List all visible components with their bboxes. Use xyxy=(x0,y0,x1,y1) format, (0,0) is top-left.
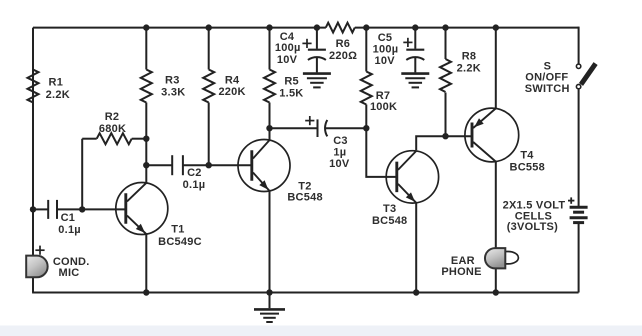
svg-text:R5: R5 xyxy=(284,75,299,87)
capacitor C1 xyxy=(47,200,49,219)
battery B1 2x1.5V xyxy=(570,206,588,209)
resistor R3 xyxy=(141,70,152,103)
svg-text:3.3K: 3.3K xyxy=(161,86,185,98)
svg-text:100µ: 100µ xyxy=(373,43,399,55)
svg-text:S: S xyxy=(544,60,552,72)
resistor R2 xyxy=(81,139,83,210)
svg-text:R2: R2 xyxy=(105,111,120,123)
node: C3 / R7 junction xyxy=(363,125,369,131)
wire: R4 branch xyxy=(208,28,210,70)
svg-text:0.1µ: 0.1µ xyxy=(58,224,81,236)
svg-text:1.5K: 1.5K xyxy=(279,87,303,99)
wire: T4 emitter to top rail xyxy=(495,28,497,110)
node: bottom rail junctions xyxy=(143,289,149,295)
wire: C2 to T2 base xyxy=(183,164,252,166)
transistor T4 xyxy=(465,108,519,162)
wire: right rail battery to bottom rail xyxy=(578,224,580,293)
transistor T2 xyxy=(238,140,290,192)
resistor R6 xyxy=(326,23,355,33)
resistor R4 xyxy=(203,70,214,103)
svg-text:1µ: 1µ xyxy=(333,146,346,158)
svg-text:2.2K: 2.2K xyxy=(46,89,70,101)
node: R2 to T1 collector junction xyxy=(143,136,149,142)
svg-text:680K: 680K xyxy=(99,123,126,135)
C3 polarity + xyxy=(305,120,314,122)
wire: bottom ground rail xyxy=(32,292,579,294)
svg-text:10V: 10V xyxy=(277,54,298,66)
wire: R7 branch xyxy=(365,28,367,72)
condenser microphone xyxy=(26,256,47,278)
wire: R7 node down and to T3 base xyxy=(366,128,397,177)
wire: R5 branch / T2 collector line xyxy=(269,28,271,70)
capacitor C3 xyxy=(317,119,319,137)
node: R5 / T2 collector / C3 junction xyxy=(266,125,272,131)
resistor R8 xyxy=(440,59,451,92)
svg-text:R3: R3 xyxy=(165,74,180,86)
svg-text:220K: 220K xyxy=(218,86,245,98)
svg-text:10V: 10V xyxy=(375,55,396,67)
wire: C3 to R7 node xyxy=(326,127,367,129)
svg-text:PHONE: PHONE xyxy=(441,266,481,278)
capacitor C4 xyxy=(316,28,318,49)
resistor R7 xyxy=(361,72,372,105)
svg-text:C3: C3 xyxy=(333,135,348,147)
svg-text:R8: R8 xyxy=(462,50,477,62)
svg-text:10V: 10V xyxy=(329,158,350,170)
capacitor C5 xyxy=(414,28,416,49)
svg-text:C5: C5 xyxy=(378,32,393,44)
svg-text:100µ: 100µ xyxy=(275,42,301,54)
wire: mic node to T1 base through C1 xyxy=(33,208,48,210)
svg-text:MIC: MIC xyxy=(59,267,80,279)
svg-text:2.2K: 2.2K xyxy=(457,62,481,74)
wire: T2 emitter to bottom rail xyxy=(269,191,271,292)
wire: T1 emitter to bottom rail xyxy=(145,234,147,292)
capacitor C2 xyxy=(171,155,173,175)
ground for C5 xyxy=(401,72,429,75)
svg-text:EAR: EAR xyxy=(451,255,475,267)
svg-text:0.1µ: 0.1µ xyxy=(183,179,206,191)
switch S contacts xyxy=(576,64,580,68)
svg-text:BC548: BC548 xyxy=(372,215,408,227)
svg-text:T3: T3 xyxy=(383,203,396,215)
node: C1 left on input rail xyxy=(30,206,36,212)
transistor T1 xyxy=(116,183,168,235)
svg-text:SWITCH: SWITCH xyxy=(525,83,570,95)
svg-text:R6: R6 xyxy=(336,38,351,50)
svg-text:ON/OFF: ON/OFF xyxy=(525,72,568,84)
svg-text:100K: 100K xyxy=(370,101,397,113)
wire: T3 collector to R8 node and T4 base xyxy=(416,136,472,150)
wire: left vertical rail xyxy=(32,28,34,293)
node: R4 to C2 junction xyxy=(206,162,212,168)
wire: T4 collector to earphone and bottom rail xyxy=(495,161,497,293)
mic polarity + xyxy=(35,249,44,251)
svg-text:C2: C2 xyxy=(187,167,202,179)
svg-text:T1: T1 xyxy=(171,224,184,236)
earphone body xyxy=(485,248,505,268)
svg-text:T4: T4 xyxy=(520,149,534,161)
svg-text:BC548: BC548 xyxy=(287,191,323,203)
wire: T2 collector node to C3 xyxy=(270,127,318,129)
resistor R1 xyxy=(28,70,39,103)
svg-text:C1: C1 xyxy=(61,212,76,224)
wire: T1 collector to C2 xyxy=(146,164,172,166)
svg-text:BC558: BC558 xyxy=(510,161,546,173)
C5 polarity + xyxy=(403,41,412,43)
svg-text:BC549C: BC549C xyxy=(158,236,202,248)
node: top rail junctions xyxy=(143,24,149,30)
node: R2 to T1 base junction xyxy=(79,206,85,212)
svg-text:R7: R7 xyxy=(376,90,391,102)
wire: top supply rail xyxy=(33,27,326,29)
wire: R8 branch xyxy=(445,28,447,59)
wire: right rail top segment to switch xyxy=(578,27,580,64)
battery polarity + xyxy=(568,200,574,202)
node: C2 tap on T1 collector xyxy=(143,162,149,168)
wire: right rail switch to battery xyxy=(578,89,580,206)
transistor T3 xyxy=(386,151,438,203)
earphone loop xyxy=(505,252,518,264)
svg-text:220Ω: 220Ω xyxy=(329,50,357,62)
wire: T3 emitter to bottom rail xyxy=(415,203,417,293)
node: R8 / T3 collector / T4 base junction xyxy=(442,133,448,139)
svg-text:(3VOLTS): (3VOLTS) xyxy=(507,221,558,233)
C4 polarity + xyxy=(302,42,311,44)
svg-text:R4: R4 xyxy=(225,74,240,86)
resistor R5 xyxy=(264,70,275,103)
ground: main at bottom rail xyxy=(269,293,271,309)
svg-text:R1: R1 xyxy=(49,76,64,88)
ground for C4 xyxy=(303,72,331,75)
wire: R3 branch / T1 collector line xyxy=(145,28,147,70)
switch S lever xyxy=(581,64,596,85)
